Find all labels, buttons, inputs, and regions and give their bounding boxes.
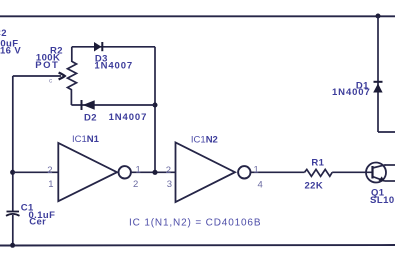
svg-text:2: 2	[133, 179, 138, 190]
svg-text:R1: R1	[311, 158, 324, 169]
svg-text:1: 1	[136, 165, 141, 176]
resistor R1	[305, 169, 333, 176]
node junction bottom rail C1	[10, 243, 15, 248]
svg-text:D2: D2	[84, 113, 97, 124]
svg-text:C2: C2	[0, 28, 7, 39]
wire left rail upper	[12, 76, 14, 211]
op-amp inverter U2 IC1N2	[176, 143, 251, 203]
capacitor C1	[6, 212, 20, 216]
wire Q1 emitter to right edge	[385, 180, 395, 182]
wire D1 branch vertical	[377, 16, 379, 132]
wire loop bottom	[71, 104, 155, 106]
svg-text:4: 4	[258, 180, 263, 191]
pot R2 wiper arrow	[13, 73, 65, 80]
wire loop top	[72, 46, 155, 48]
svg-text:1N4007: 1N4007	[109, 112, 148, 123]
node junction N1 input	[10, 170, 15, 175]
diode D3	[94, 42, 102, 52]
wire loop right side	[154, 47, 156, 172]
node junction top rail to D1 branch	[376, 14, 381, 19]
wire top supply rail	[0, 15, 395, 17]
diode D2	[82, 100, 95, 110]
svg-text:1: 1	[48, 179, 53, 190]
potentiometer R2 body	[68, 62, 77, 91]
svg-text:POT: POT	[35, 60, 59, 71]
node junction N1 output	[152, 170, 157, 175]
svg-text:3: 3	[167, 179, 172, 190]
svg-text:16 V: 16 V	[0, 46, 21, 57]
svg-text:1N4007: 1N4007	[332, 87, 371, 98]
node junction loop bottom wire	[153, 103, 158, 108]
svg-text:2: 2	[47, 165, 52, 176]
svg-text:22K: 22K	[305, 180, 324, 191]
wire N1 output	[131, 171, 176, 173]
wire pot top lead	[71, 47, 73, 62]
svg-text:2: 2	[166, 165, 171, 176]
wire N1 input	[13, 171, 59, 173]
wire bottom ground rail	[0, 244, 395, 247]
op-amp inverter U1 IC1N1	[58, 143, 131, 201]
wire D1 branch to right edge	[378, 131, 395, 133]
svg-text:IC1N2: IC1N2	[191, 134, 218, 145]
wire Q1 collector to right edge	[385, 164, 395, 166]
svg-text:SL100: SL100	[370, 195, 395, 206]
wire N2 output	[251, 171, 305, 173]
svg-text:IC 1(N1,N2) = CD40106B: IC 1(N1,N2) = CD40106B	[129, 218, 261, 229]
wire pot bottom lead	[70, 90, 72, 105]
svg-text:IC1N1: IC1N1	[72, 134, 100, 145]
wire R1 to Q1 base	[332, 171, 372, 173]
diode D1	[373, 82, 382, 93]
svg-text:Cer: Cer	[29, 217, 46, 228]
svg-text:1: 1	[254, 165, 259, 176]
svg-text:1N4007: 1N4007	[94, 61, 133, 72]
wire left rail lower	[12, 215, 14, 246]
transistor Q1	[366, 163, 386, 183]
